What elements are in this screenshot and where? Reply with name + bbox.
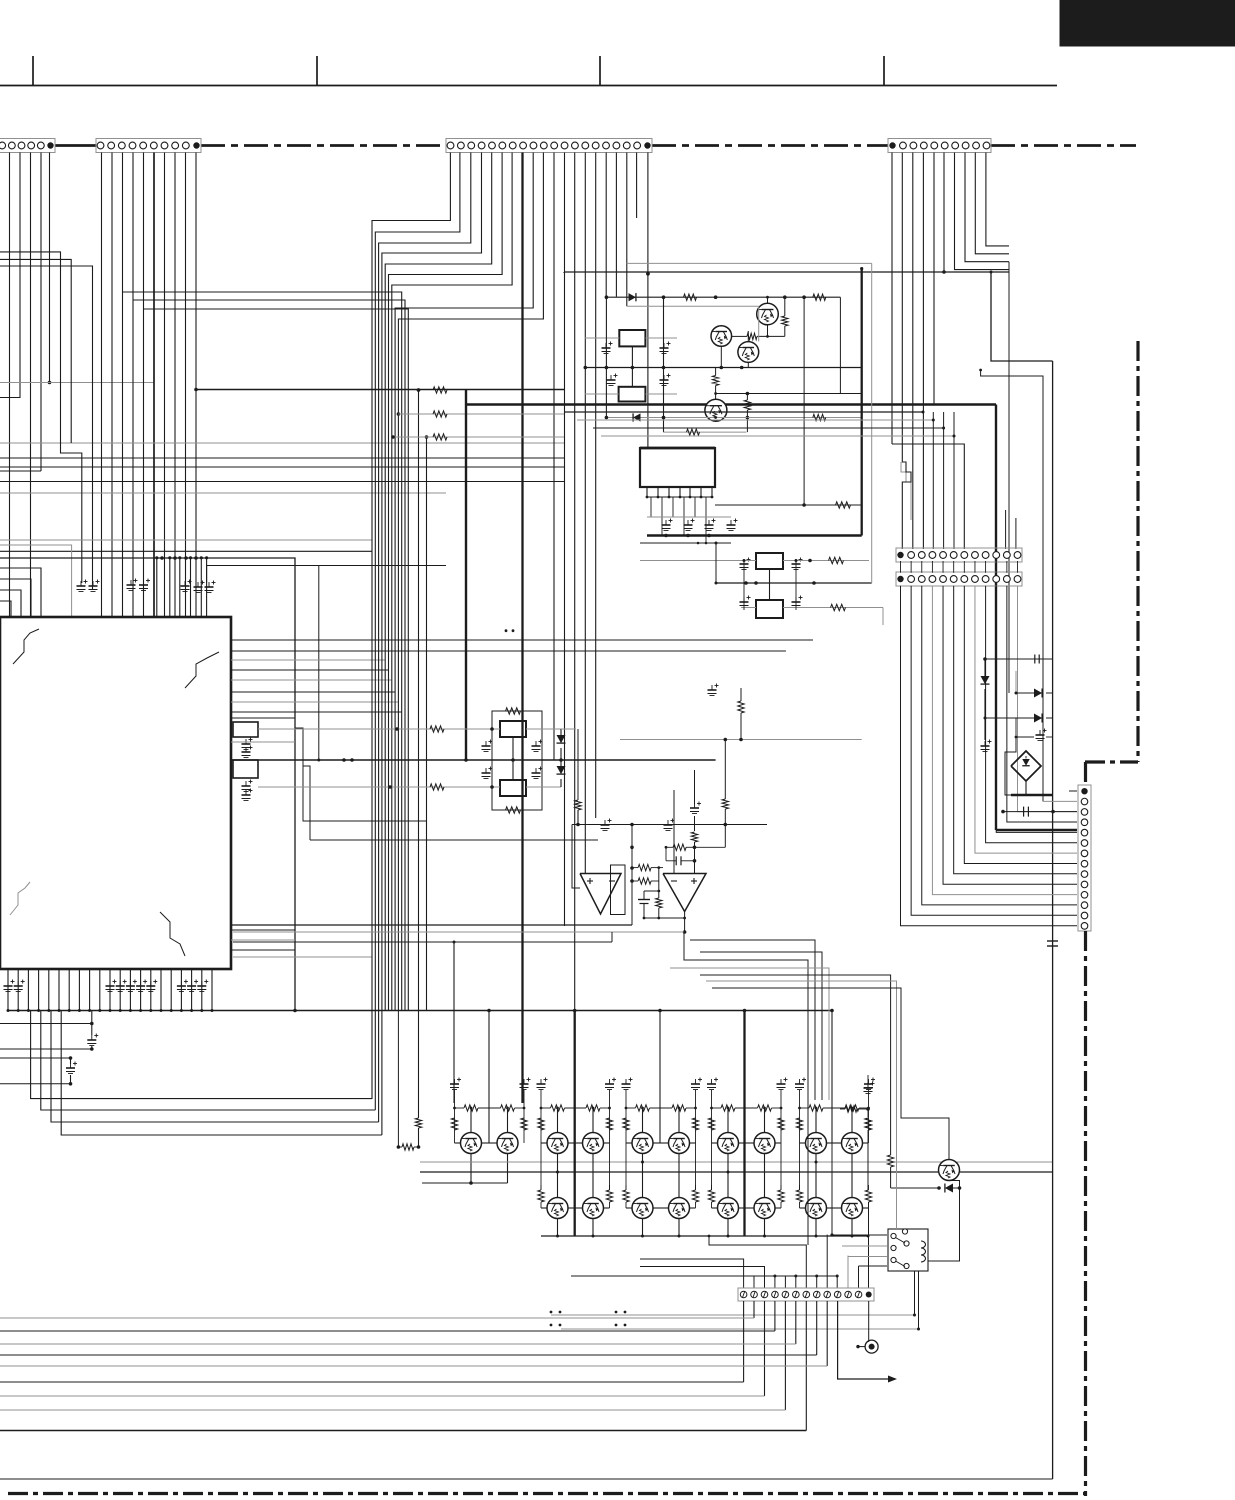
wire staircase CN2 east jogs bbox=[123, 292, 402, 1011]
relay coil bbox=[921, 1241, 926, 1248]
op-amp U3 bbox=[580, 874, 621, 915]
net y925 bbox=[231, 924, 632, 926]
IC U1 (microprocessor) bbox=[0, 617, 231, 969]
net y957 gray bbox=[233, 956, 372, 958]
border tick 3 bbox=[599, 56, 601, 86]
transistor Q4 bbox=[705, 399, 727, 421]
op-amp U4 bbox=[663, 874, 706, 912]
caps under U2 bbox=[662, 524, 671, 526]
mid net y367 bbox=[585, 367, 861, 369]
wire CN3-19 bbox=[636, 153, 638, 219]
heavy wire CN3-8 bbox=[521, 153, 523, 1104]
vertical resistors second row bbox=[538, 1190, 544, 1202]
board border jog bbox=[1085, 760, 1138, 763]
long net y272 bbox=[564, 271, 1009, 273]
pin stub nets lower bbox=[231, 929, 295, 931]
connector CN3 bbox=[446, 139, 652, 153]
heavy vertical x861 bbox=[861, 269, 863, 536]
connector CN5 row1 bbox=[896, 548, 1022, 562]
q3 vertical bbox=[747, 331, 749, 342]
connector CN6 (vertical) bbox=[1078, 785, 1091, 931]
left long nets bbox=[0, 442, 565, 444]
net x454 drop bbox=[233, 941, 612, 943]
resistor R1 bbox=[684, 294, 697, 300]
link RB1-RB2 bbox=[631, 346, 633, 386]
thin drops from bus bbox=[488, 1011, 490, 1144]
connector CN5 row2 bbox=[896, 572, 1022, 586]
gray stub RB2 left bbox=[585, 393, 619, 395]
bridge rectifier BR1 bbox=[1011, 751, 1041, 781]
zener ZD1 bbox=[560, 729, 562, 735]
array group 4 bias network bbox=[711, 1090, 713, 1143]
resistor R3 bbox=[784, 297, 786, 316]
transistor Q2 bbox=[711, 326, 732, 347]
array group 1 caps bbox=[450, 1083, 459, 1085]
resistor network frame bbox=[492, 711, 542, 810]
resistor net right of U2 bbox=[715, 504, 862, 506]
IC right-side pin nets bbox=[231, 639, 813, 641]
net line to IC right column bbox=[0, 558, 295, 1011]
CN5 row1-row2 links bbox=[900, 561, 902, 573]
net y824 bbox=[572, 824, 767, 826]
wire x868 long bbox=[867, 1075, 869, 1090]
gray net y517 bbox=[647, 516, 731, 518]
dots mid bbox=[505, 629, 508, 632]
Q5 emitter to coil bbox=[928, 1181, 960, 1262]
net y560 left bbox=[640, 560, 756, 562]
subcircuit top rail bbox=[606, 296, 840, 298]
net y583 bbox=[716, 582, 872, 584]
relay transistor Q5 bbox=[939, 1160, 960, 1181]
wire CN3-13 bbox=[574, 153, 576, 1011]
resistor R2 bbox=[813, 294, 826, 300]
long horizontals into CN5 bbox=[565, 411, 923, 413]
heavy net y404 bbox=[466, 403, 996, 405]
IC corner mark NW bbox=[13, 629, 39, 664]
cap C24b bbox=[690, 807, 699, 809]
wire CN3-20 (bus) bbox=[647, 153, 649, 449]
U4 output bbox=[684, 912, 686, 933]
ellipsis dots bbox=[550, 1311, 553, 1314]
connector CN2 bbox=[96, 139, 201, 153]
wire CN3-18 bbox=[626, 153, 628, 307]
resistor R7 bottom bbox=[506, 807, 521, 813]
heavy vertical x996 bbox=[995, 405, 997, 831]
net y560 right bbox=[783, 560, 869, 562]
wire CN3-10 west short bbox=[398, 153, 543, 1011]
corner net to x1052 bbox=[991, 272, 1053, 361]
board border right lower bbox=[1084, 762, 1087, 785]
bottom bus lines bbox=[0, 1317, 754, 1319]
array inter-row links bbox=[557, 1154, 559, 1198]
gray base feed y306 bbox=[627, 305, 759, 307]
gray stub RB1 left bbox=[585, 337, 619, 339]
resistor box RB6 bbox=[756, 600, 783, 618]
top border rule bbox=[0, 85, 1057, 87]
array group 3 caps bbox=[622, 1083, 631, 1085]
RB5 cap rails bbox=[743, 561, 745, 611]
cap C20 bbox=[740, 563, 749, 565]
cap C4 bbox=[660, 379, 669, 381]
left edge feeder wires bbox=[0, 252, 82, 583]
connector CN1 bbox=[0, 139, 55, 153]
zener ZD3 bbox=[984, 659, 986, 676]
cap C21 bbox=[792, 563, 801, 565]
resistor R17 bbox=[740, 688, 742, 701]
resistor R4b bbox=[744, 400, 750, 410]
inverting net x632 bbox=[631, 825, 633, 926]
feedback cap C25 bbox=[665, 847, 667, 861]
IC corner mark SE bbox=[160, 912, 185, 956]
border tick 1 bbox=[32, 56, 34, 86]
bias network left of array bbox=[415, 1118, 421, 1128]
RCA jack J1 bbox=[865, 1340, 878, 1353]
net y336 with resistor bbox=[732, 335, 748, 337]
resistor box RB3 bbox=[500, 721, 526, 737]
staircase to lower right bbox=[684, 932, 808, 1245]
wire staircase CN3 west bbox=[372, 153, 450, 1100]
wires x1009 down bbox=[1008, 262, 1010, 693]
resistor R14 bbox=[845, 1106, 857, 1112]
connector CN4 bbox=[888, 139, 991, 153]
resistor net y729 cont bbox=[561, 728, 576, 730]
wires from CN2 bbox=[101, 153, 103, 618]
tie y891 bbox=[644, 890, 659, 892]
wires from CN4 bbox=[986, 153, 1009, 246]
nested corner nets from bus bbox=[31, 1011, 372, 1099]
feedback resistor R10 bbox=[638, 878, 651, 884]
CN7 upper bus bbox=[571, 1275, 837, 1277]
heavy net y535 bbox=[647, 534, 862, 536]
diode D1 bbox=[629, 293, 636, 301]
net y543 bbox=[640, 542, 731, 544]
cap net y811 bbox=[1003, 811, 1077, 813]
IC top corner feeders bbox=[0, 568, 41, 617]
cap C14 bbox=[981, 745, 990, 747]
feedback resistor R14b bbox=[666, 846, 673, 848]
cap C1 bbox=[602, 347, 611, 349]
RC cluster right of IC bbox=[233, 722, 258, 737]
op-amp U3 feed bbox=[572, 825, 580, 889]
rail x663 bbox=[663, 297, 665, 432]
array base rails bbox=[455, 1142, 461, 1144]
resistor net y390 verticals bbox=[417, 388, 421, 392]
bus stubs down-left bbox=[0, 1023, 92, 1025]
IC bottom pins bbox=[7, 969, 9, 1011]
U4 inverting input net bbox=[673, 790, 675, 874]
cap C8 bbox=[532, 772, 541, 774]
net y739 gray bbox=[620, 739, 862, 741]
cap C22 bbox=[740, 601, 749, 603]
wire bundle from CN1 bbox=[9, 153, 11, 618]
net y607 bbox=[742, 607, 756, 609]
cap C11 bbox=[643, 891, 645, 900]
relay pole wires down bbox=[914, 1271, 916, 1315]
net y840 long bbox=[310, 839, 598, 841]
caps below IC bbox=[4, 985, 13, 987]
cap C5 bbox=[482, 745, 491, 747]
net y729 left bbox=[258, 728, 500, 730]
cap C10 bbox=[664, 824, 673, 826]
array transistors top row bbox=[461, 1133, 482, 1154]
inter-board bus (dash-dot) bbox=[55, 144, 96, 147]
border tick 4 bbox=[883, 56, 885, 86]
heavy stub y795 bbox=[1011, 794, 1053, 796]
wire CN3-16 bbox=[605, 153, 607, 297]
resistor R11 bbox=[656, 898, 662, 908]
cap C17 bbox=[864, 1087, 873, 1089]
column rails x541 etc bbox=[540, 1143, 542, 1190]
inner frame right bbox=[0, 1478, 1053, 1480]
ground bus y1010 bbox=[8, 1010, 832, 1012]
cap C12 bbox=[87, 1039, 96, 1041]
gray net y1315 bbox=[551, 1314, 915, 1316]
cap C16 on x1052 bbox=[1047, 940, 1058, 942]
net y659 bbox=[985, 658, 1053, 660]
array group 4 caps bbox=[707, 1083, 716, 1085]
border tick 2 bbox=[316, 56, 318, 86]
resistor box RB5 bbox=[756, 553, 783, 569]
net y932 gray bbox=[233, 931, 684, 933]
jog on CN4 wire bbox=[902, 153, 911, 550]
relay contact feeds bbox=[832, 1143, 887, 1235]
left rail x606 bbox=[605, 297, 607, 417]
CN7 upper wires bbox=[640, 1259, 744, 1288]
link RB3-RB4 bbox=[512, 737, 514, 780]
gray net y263 with corner bbox=[627, 262, 872, 264]
resistor on net y390 bbox=[433, 387, 447, 393]
resistor R16 bbox=[887, 1155, 893, 1167]
cap C6 bbox=[532, 745, 541, 747]
cap C15 bbox=[1015, 718, 1017, 737]
cap C3 bbox=[607, 379, 616, 381]
net y393 gray bbox=[716, 393, 841, 395]
heavy jog to CN6 bbox=[996, 829, 1077, 831]
wire CN3-14 bbox=[584, 153, 586, 874]
diode D2 bbox=[633, 413, 640, 421]
title block (black corner) bbox=[1060, 0, 1235, 46]
cap C23 bbox=[792, 601, 801, 603]
relay RY1 bbox=[888, 1229, 928, 1271]
CN5 feeder stubs bbox=[932, 412, 934, 549]
net y787 right bbox=[526, 786, 561, 788]
dense bundle above IC bbox=[156, 558, 158, 617]
tie y918 bbox=[644, 917, 685, 919]
wire x901 jog bbox=[901, 462, 911, 520]
gray feed into CN6 top bbox=[1069, 790, 1077, 792]
cap C7 bbox=[482, 772, 491, 774]
board border right upper (dash-dot) bbox=[1136, 341, 1139, 762]
wire CN3-15 bbox=[595, 153, 597, 819]
gray stub RB1 right bbox=[645, 337, 677, 339]
resistor box RB2 bbox=[619, 387, 646, 402]
q2 vertical bbox=[720, 346, 722, 367]
op-amp U3 frame bbox=[611, 865, 626, 915]
connector CN7 bbox=[738, 1288, 874, 1301]
array group 2 bias network bbox=[540, 1090, 542, 1143]
rail corner to y393 bbox=[840, 297, 860, 393]
net x658 bbox=[658, 868, 660, 898]
decoupling caps above IC bbox=[77, 585, 86, 587]
cap C13 bbox=[66, 1067, 75, 1069]
cap C9 bbox=[601, 824, 610, 826]
wire CN3-11 bbox=[553, 153, 555, 761]
jack feed from CN7 bbox=[868, 1301, 870, 1342]
array transistors bottom row bbox=[547, 1198, 568, 1219]
net line D bbox=[207, 565, 447, 567]
cap C24 bbox=[708, 689, 717, 691]
net x578 feed bbox=[577, 729, 579, 800]
gray net line B bbox=[0, 539, 372, 541]
net x804 drop bbox=[803, 297, 805, 505]
IC corner mark NE bbox=[185, 652, 219, 688]
lower net y417 bbox=[606, 417, 860, 419]
resistor R13 bbox=[724, 738, 728, 742]
diode D4 bbox=[985, 717, 1034, 719]
array emitter nets bbox=[470, 1154, 472, 1184]
heavy drops from bus bbox=[574, 1011, 576, 1237]
gray stub RB2 right bbox=[645, 393, 677, 395]
wire CN3-17 bbox=[615, 153, 617, 297]
zener ZD2 bbox=[560, 760, 562, 766]
resistor R12 bbox=[691, 832, 697, 842]
main net y760 bbox=[231, 759, 716, 761]
net y390 bbox=[196, 389, 564, 391]
wires feeding relay area bbox=[700, 975, 891, 1155]
array bottom emitter rail bbox=[541, 1235, 868, 1237]
array group 1 bias network bbox=[454, 1090, 456, 1143]
net y414 gray bbox=[398, 413, 564, 415]
link RB5-RB6 bbox=[769, 569, 771, 600]
step-down jogs right of IC bbox=[295, 728, 427, 821]
bridge feeds bbox=[1005, 737, 1016, 795]
resistor R5 bbox=[813, 414, 826, 420]
feedback resistor R9 bbox=[638, 864, 651, 870]
net y437 gray bbox=[393, 436, 564, 438]
cap feed x318 bbox=[318, 566, 320, 760]
resistor R6 top bbox=[506, 708, 521, 714]
board border bottom bbox=[8, 1492, 1085, 1495]
U2 pins bbox=[646, 487, 648, 497]
array group 2 caps bbox=[537, 1083, 546, 1085]
U2 pin nets down bbox=[650, 497, 652, 517]
array group 5 caps bbox=[795, 1083, 804, 1085]
net y787 left bbox=[258, 786, 500, 788]
diode D3 bbox=[1016, 692, 1034, 694]
wires row2 down to CN6 staircase bbox=[911, 586, 1077, 916]
cap C2 bbox=[660, 347, 669, 349]
resistor R4a bbox=[715, 368, 717, 376]
resistor R15 bbox=[865, 1118, 871, 1130]
array group 3 bias network bbox=[625, 1090, 627, 1143]
heavy vertical x466 bbox=[465, 390, 467, 760]
transistor Q3 bbox=[738, 342, 759, 363]
resistor box RB4 bbox=[500, 780, 526, 796]
corner net to x1043 bbox=[981, 370, 1043, 801]
diode D5 bbox=[891, 1187, 938, 1189]
wire CN3-12 bbox=[564, 153, 566, 927]
staircase from CN7 to left bus bbox=[743, 1301, 745, 1382]
arrow output bbox=[838, 1301, 888, 1379]
resistor box RB1 bbox=[619, 330, 645, 346]
U4 non-inv net bbox=[694, 770, 696, 804]
net y382 gray bbox=[0, 382, 154, 384]
gray net y1329 bbox=[561, 1328, 919, 1330]
net to R13 bbox=[695, 846, 726, 848]
bottom loop under Q4 bbox=[663, 418, 665, 433]
IC U2 (driver) bbox=[640, 448, 715, 487]
array group 5 bias network bbox=[799, 1090, 801, 1143]
transistor Q1 bbox=[757, 303, 779, 325]
net y729 right bbox=[526, 728, 561, 730]
IC corner mark SW bbox=[10, 882, 30, 915]
